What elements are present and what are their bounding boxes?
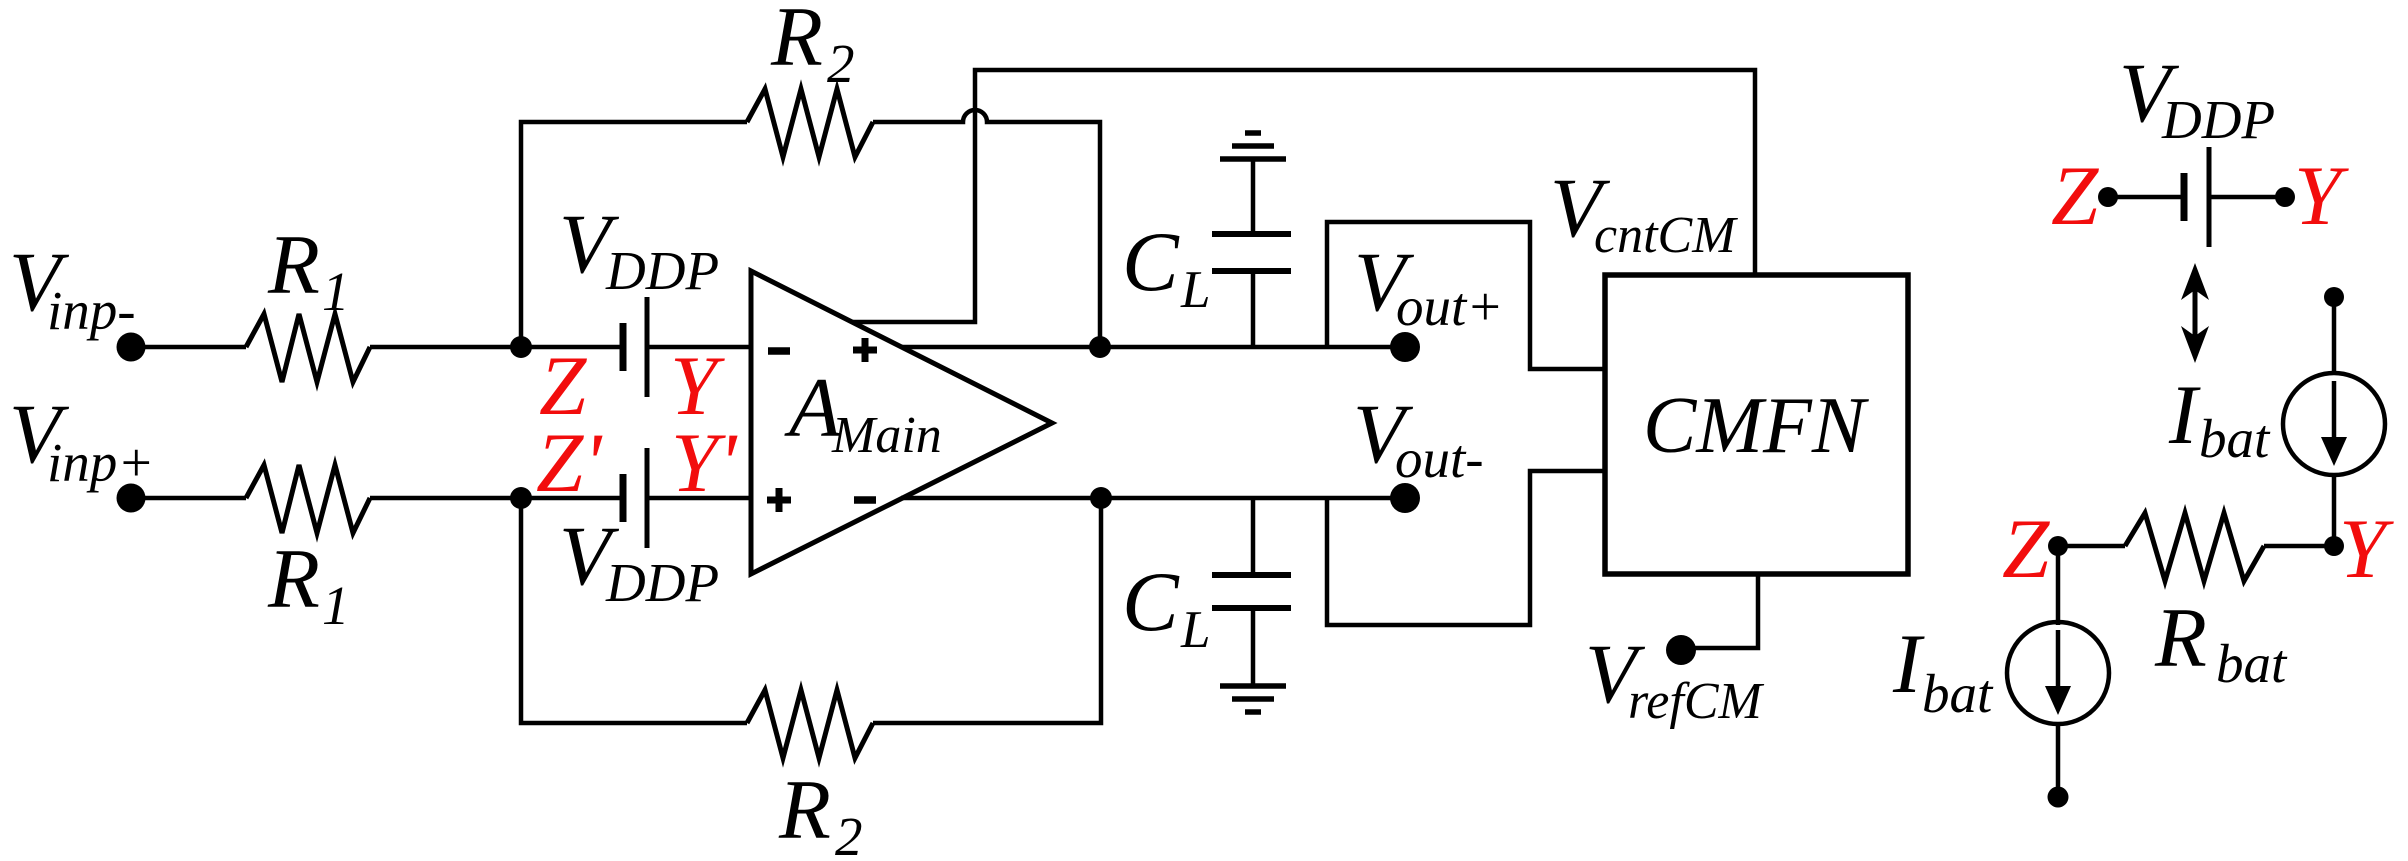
- resistor Rbat: [2125, 513, 2264, 581]
- svg-text:Main: Main: [831, 407, 942, 464]
- battery VDDP (top): long plate: [645, 297, 650, 397]
- svg-text:cntCM: cntCM: [1594, 207, 1738, 264]
- wire node Z' down to bottom feedback R2: [521, 498, 747, 723]
- svg-text:L: L: [1180, 261, 1210, 319]
- svg-text:2: 2: [835, 806, 863, 861]
- junction node Z (inverting input net): [510, 336, 532, 358]
- node Y dot (resistor model): [2324, 536, 2344, 556]
- wire R1 to node Z': [370, 496, 623, 501]
- node terminal bottom of Ibat source: [2048, 787, 2069, 808]
- wire CMFN to VrefCM: [1682, 574, 1758, 648]
- svg-text:C: C: [1122, 215, 1180, 309]
- svg-text:bat: bat: [1922, 663, 1994, 724]
- svg-text:DDP: DDP: [2161, 89, 2275, 150]
- wire Vinp+ to R1 bottom: [131, 496, 246, 501]
- node Z dot (resistor model): [2048, 536, 2068, 556]
- wire output+: [901, 345, 1400, 350]
- ground (bottom): [1220, 683, 1286, 689]
- capacitor CL (top): stems and plates: [1251, 271, 1256, 347]
- svg-text:C: C: [1122, 555, 1180, 649]
- junction node Z' (non-inverting input net): [510, 487, 532, 509]
- node Vout- terminal: [1390, 483, 1420, 513]
- svg-text:Z: Z: [2051, 149, 2099, 243]
- ground (top, inverted): [1220, 156, 1286, 162]
- wire Z down to current source: [2056, 546, 2061, 625]
- wire VcntCM: op-amp sense to CMFN top: [852, 70, 1755, 322]
- svg-text:DDP: DDP: [605, 552, 719, 613]
- svg-text:out-: out-: [1395, 428, 1484, 489]
- op-amp pin label minus (bottom output): [854, 496, 876, 504]
- svg-text:inp-: inp-: [47, 280, 136, 341]
- svg-text:1: 1: [322, 261, 350, 322]
- op-amp pin label plus (top output): [853, 338, 877, 362]
- capacitor CL (bottom): stems and plates: [1251, 498, 1256, 575]
- svg-text:I: I: [2168, 368, 2201, 462]
- battery (model): short plate: [2181, 173, 2188, 221]
- wire output-: [901, 496, 1400, 501]
- svg-text:2: 2: [827, 33, 855, 94]
- wire R1 to node Z: [370, 345, 623, 350]
- current source Ibat (bottom model): [2007, 622, 2109, 724]
- op-amp pin label plus (bottom-left): [767, 488, 791, 512]
- node Vout+ terminal: [1390, 332, 1420, 362]
- equivalence double arrow: [2193, 288, 2198, 338]
- svg-text:R: R: [267, 532, 320, 626]
- battery VDDP (bottom): short plate: [620, 474, 627, 522]
- node Z dot (battery model): [2098, 187, 2118, 207]
- svg-text:DDP: DDP: [605, 240, 719, 301]
- resistor R2 (top): [747, 89, 873, 157]
- svg-text:Y: Y: [2294, 149, 2349, 243]
- svg-text:R: R: [770, 0, 823, 84]
- svg-text:CMFN: CMFN: [1643, 382, 1870, 470]
- current source Ibat (top model): [2283, 373, 2385, 475]
- wire Vout+ sense to CMFN: [1327, 222, 1605, 369]
- svg-text:bat: bat: [2216, 633, 2288, 694]
- wire battery to op-amp non-inverting input: [647, 496, 751, 501]
- svg-text:L: L: [1180, 601, 1210, 659]
- node Vinp- terminal: [117, 333, 146, 362]
- wire terminal to current source: [2332, 297, 2337, 373]
- wire R2 right and up to output- node: [873, 498, 1101, 723]
- resistor R1 (bottom): [246, 465, 370, 533]
- wire Rbat to Y: [2264, 544, 2334, 549]
- svg-text:Z: Z: [2002, 502, 2050, 596]
- op-amp AMain triangle: [751, 271, 1052, 574]
- node Y dot (battery model): [2275, 187, 2295, 207]
- node terminal top of Ibat source: [2324, 287, 2344, 307]
- wire current source to node Y: [2332, 475, 2337, 546]
- svg-text:out+: out+: [1396, 276, 1503, 337]
- wire Vinp- to R1 top: [131, 345, 246, 350]
- resistor R1 (top): [246, 314, 370, 382]
- svg-text:R: R: [267, 218, 320, 312]
- svg-text:bat: bat: [2199, 408, 2271, 469]
- wire battery to op-amp inverting input: [647, 345, 751, 350]
- node Vinp+ terminal: [117, 484, 146, 513]
- svg-text:Z': Z': [536, 416, 603, 510]
- wire battery to Y: [2209, 195, 2285, 200]
- resistor R2 (bottom): [747, 690, 873, 758]
- block CMFN: [1605, 275, 1908, 574]
- battery VDDP (bottom): long plate: [645, 448, 650, 548]
- svg-text:R: R: [778, 763, 831, 857]
- wire Z to Rbat: [2058, 544, 2125, 549]
- wire Vout- sense to CMFN: [1327, 471, 1605, 625]
- svg-text:R: R: [2154, 591, 2207, 685]
- battery (model): long plate: [2207, 147, 2212, 247]
- junction feedback/output-: [1090, 487, 1112, 509]
- junction feedback/output+: [1089, 336, 1111, 358]
- svg-text:I: I: [1892, 617, 1925, 711]
- wire node Z up to top feedback R2: [521, 122, 747, 347]
- wire current source to terminal: [2056, 724, 2061, 790]
- svg-text:inp+: inp+: [47, 432, 154, 493]
- wire Z to battery: [2108, 195, 2184, 200]
- svg-text:1: 1: [322, 575, 350, 636]
- op-amp pin label minus (top-left): [768, 347, 790, 355]
- svg-text:refCM: refCM: [1628, 673, 1765, 730]
- node VrefCM terminal: [1666, 635, 1696, 665]
- wire R2 right with hop over VcntCM line, down to output+ node: [873, 110, 1100, 347]
- svg-text:Y: Y: [2339, 502, 2394, 596]
- battery VDDP (top): short plate: [620, 323, 627, 371]
